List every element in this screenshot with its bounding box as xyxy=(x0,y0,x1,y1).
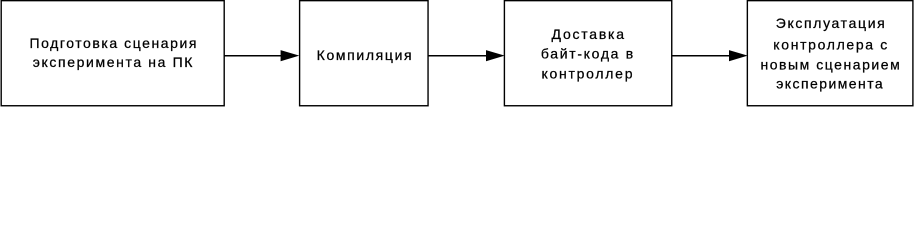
svg-text:контроллера с: контроллера с xyxy=(773,36,887,52)
svg-text:Компиляция: Компиляция xyxy=(317,47,412,63)
svg-text:контроллер: контроллер xyxy=(542,66,633,82)
svg-text:Подготовка сценария: Подготовка сценария xyxy=(29,35,196,51)
svg-text:новым сценарием: новым сценарием xyxy=(760,56,899,72)
svg-text:байт-кода в: байт-кода в xyxy=(541,46,633,62)
svg-text:эксперимента: эксперимента xyxy=(776,76,883,92)
